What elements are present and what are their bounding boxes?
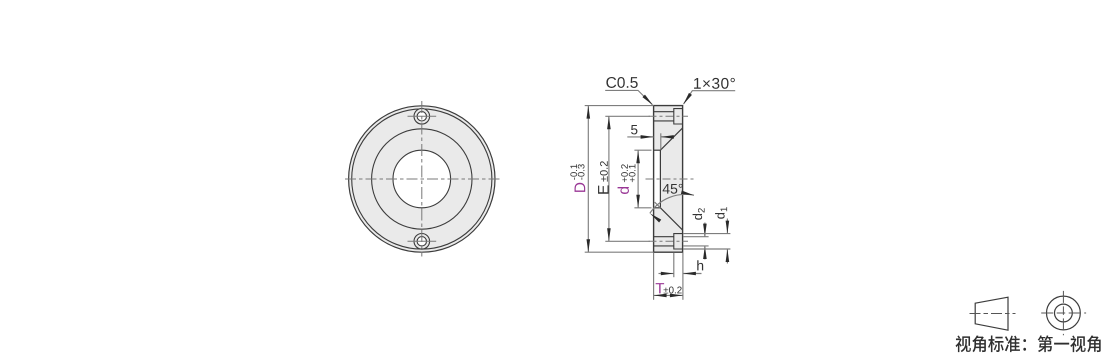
section: main centerline bbox=[646, 178, 695, 180]
dimension d: label d +0.2/+0.1 bbox=[618, 164, 636, 194]
front view: bore circle (diameter d) bbox=[393, 150, 451, 208]
section: top screw hole centerline bbox=[649, 115, 689, 117]
dimension T: dimension line bbox=[654, 294, 683, 298]
section: bottom screw counterbore pocket bbox=[674, 234, 683, 249]
dimension E: label E±0.2 bbox=[598, 161, 609, 194]
front view: funnel opening circle bbox=[372, 129, 472, 229]
front view: bottom screw hole bore bbox=[417, 237, 426, 246]
section: top screw hole walls bbox=[654, 112, 674, 121]
dimension D: dimension line bbox=[587, 106, 591, 253]
leader 1x30deg: leader line bbox=[682, 91, 735, 106]
front view: top screw hole bore bbox=[417, 112, 426, 121]
front view: horizontal centerline bbox=[345, 178, 500, 180]
dimension D: extension lines bbox=[585, 106, 654, 253]
section: bore bottom wall bbox=[654, 207, 661, 209]
front view: bottom screw hole counterbore bbox=[414, 234, 430, 250]
dimension 45deg: label bbox=[663, 184, 683, 194]
section: body fill bbox=[654, 106, 683, 253]
dimension d2: dimension line bbox=[703, 223, 707, 260]
dimension h: label bbox=[697, 260, 703, 270]
dimension d: dimension line bbox=[636, 150, 640, 208]
dimension 45deg: arc bbox=[649, 191, 695, 223]
front view: outer circle (diameter D) bbox=[349, 106, 495, 252]
front view: chamfer circle C0.5 bbox=[352, 109, 492, 249]
dimension h: dimension line bbox=[659, 272, 702, 276]
dimension 5: extension line bbox=[660, 133, 662, 149]
section: bore top wall bbox=[654, 149, 661, 151]
dimension T: extension lines bbox=[654, 253, 683, 300]
dimension d: extension lines bbox=[634, 150, 651, 208]
dimension h: extension line bbox=[673, 253, 675, 278]
section: bottom screw hole walls bbox=[654, 237, 674, 246]
front view: ring body fill bbox=[349, 106, 495, 252]
section: top screw counterbore pocket bbox=[674, 109, 683, 124]
dimension d1: dimension line bbox=[726, 219, 730, 264]
dimension D: label D -0.1/-0.3 bbox=[570, 164, 585, 192]
front view: top screw hole crosshair bbox=[408, 115, 437, 117]
front view: bottom screw hole crosshair bbox=[408, 240, 437, 242]
leader C0.5: leader line bbox=[605, 90, 654, 106]
projection symbol: frustum centerline bbox=[970, 313, 1016, 315]
section: outline bbox=[654, 106, 683, 253]
dimension 5: dimension line bbox=[627, 135, 674, 139]
dimension E: extension lines bbox=[605, 116, 650, 241]
dimension d1: label bbox=[715, 207, 727, 219]
dimension d1: extension lines bbox=[683, 234, 730, 249]
projection symbol: end view circles bbox=[1047, 296, 1081, 330]
section: 45deg cone upper edge bbox=[660, 128, 682, 150]
front view: top screw hole counterbore bbox=[414, 109, 430, 125]
dimension d2: label bbox=[693, 208, 705, 220]
front view: vertical centerline bbox=[421, 101, 423, 257]
dimension d2: extension lines bbox=[683, 237, 709, 246]
leader 1x30deg: label bbox=[694, 78, 735, 89]
section: 45deg cone lower edge bbox=[660, 208, 682, 230]
projection symbol: frustum side view bbox=[975, 297, 1008, 330]
section: bottom screw hole centerline bbox=[649, 240, 689, 242]
caption: view standard first angle projection (Chinese) bbox=[956, 335, 1101, 352]
leader C0.5: label bbox=[606, 77, 637, 88]
section: cone transition edge bbox=[659, 150, 661, 208]
dimension 45deg: cone edge extension bbox=[655, 202, 661, 208]
dimension E: dimension line bbox=[607, 116, 611, 241]
dimension 5: label bbox=[631, 125, 637, 134]
projection symbol: end view crosshair bbox=[1041, 291, 1086, 335]
dimension T: label T±0.2 bbox=[656, 283, 682, 293]
